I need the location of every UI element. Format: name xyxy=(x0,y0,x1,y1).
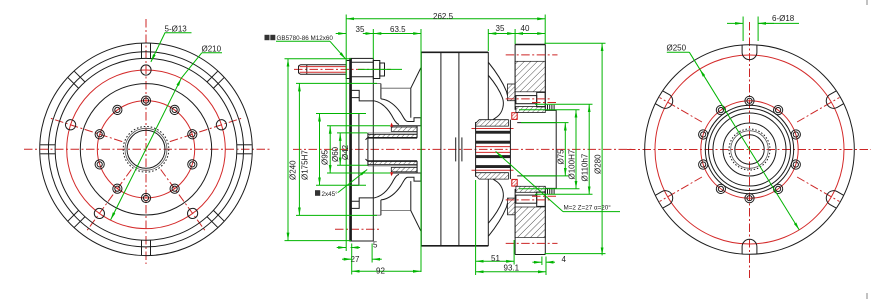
hub end step top xyxy=(417,118,421,126)
pilot boss xyxy=(545,110,556,188)
svg-text:35: 35 xyxy=(496,24,505,33)
rim top edge thick xyxy=(515,44,545,46)
left flange plate xyxy=(350,58,374,241)
collar dia95 top edge xyxy=(351,113,359,115)
bolt circle dia250 red xyxy=(655,55,844,244)
dim 40 xyxy=(515,33,545,35)
drum top edge xyxy=(421,51,488,53)
bolt hole axis red bottom xyxy=(506,199,550,201)
right hub spline shaft: top hatch band xyxy=(476,120,509,126)
hub mid line bottom xyxy=(368,165,417,167)
radial centerline 18deg xyxy=(170,118,243,142)
hub circle r44 xyxy=(705,105,793,193)
hub end cap bottom xyxy=(416,161,418,173)
screw head recess top xyxy=(537,92,546,106)
green line bolt axis xyxy=(358,68,402,70)
hub circle r41 xyxy=(709,109,791,191)
hub front chamfer bottom xyxy=(366,159,368,161)
dim 93.1 xyxy=(476,271,546,273)
rim circle 2 xyxy=(48,52,243,247)
drum left edge xyxy=(420,52,422,246)
svg-text:4: 4 xyxy=(562,255,567,264)
dia60 dim xyxy=(329,126,331,173)
svg-text:92: 92 xyxy=(376,267,385,276)
ext line 515.1 xyxy=(514,29,516,44)
svg-text:Ø60: Ø60 xyxy=(331,146,340,162)
svg-text:Ø250: Ø250 xyxy=(667,44,687,53)
radial centerline 162deg xyxy=(49,118,122,142)
plate inner face line xyxy=(350,58,352,241)
6 rim slots dia18 xyxy=(742,45,757,60)
right bell outer diagonal bottom xyxy=(489,203,508,236)
bell inner curve top xyxy=(381,99,421,122)
bell outer diagonal top xyxy=(411,67,421,88)
boss right face bottom xyxy=(380,200,382,215)
bore band top xyxy=(476,141,511,144)
bell neck vertical top xyxy=(410,88,412,118)
hub front chamfer top xyxy=(366,137,368,139)
gear teeth ticks bottom xyxy=(547,188,549,194)
bell neck vertical bottom xyxy=(410,181,412,211)
screw head recess bottom xyxy=(537,192,546,206)
inner circle r65.7 xyxy=(80,84,211,215)
bore top line xyxy=(368,137,417,139)
hub end step bottom xyxy=(417,173,421,181)
spline pitch line red top xyxy=(472,128,514,130)
bolt circle line red bottom xyxy=(506,242,558,244)
dim 35 right xyxy=(488,33,515,35)
hub mid line top xyxy=(368,132,417,134)
spline bore circle xyxy=(735,135,764,164)
d210 diameter leader line xyxy=(202,52,222,54)
svg-text:2x45°: 2x45° xyxy=(322,190,339,198)
drum inner line 2 xyxy=(458,52,460,246)
hub sleeve hatch top outer xyxy=(391,127,417,131)
bell outer diagonal bottom xyxy=(411,211,421,232)
10 small tapped holes xyxy=(745,96,754,105)
bolt callout leader xyxy=(276,40,330,42)
chamfer callout xyxy=(315,190,320,196)
8 rim notches xyxy=(142,44,151,59)
bell inner curve top 2 xyxy=(374,101,399,125)
svg-text:6-Ø18: 6-Ø18 xyxy=(772,14,795,23)
red surface mark bottom xyxy=(390,172,393,176)
drum right edge upper xyxy=(487,52,489,120)
right bell inner diagonal top xyxy=(489,76,504,120)
bolt circle small holes red xyxy=(97,101,194,198)
nut outer face xyxy=(380,63,385,76)
nut xyxy=(373,61,380,79)
boss right face top xyxy=(380,84,382,99)
left flange plate left face thick xyxy=(349,58,351,241)
bolt axis centerline top xyxy=(294,68,391,70)
right flange rim outline xyxy=(514,44,516,110)
d250 diameter leader line xyxy=(667,51,690,53)
tapped hole bore top xyxy=(516,96,537,104)
bottom hatch band xyxy=(476,173,509,179)
dia175H7 dim xyxy=(298,83,300,215)
radial centerline 30deg xyxy=(797,98,839,123)
svg-text:Ø100H7: Ø100H7 xyxy=(568,149,577,179)
dia42 dim xyxy=(339,133,341,165)
boss dia175 bottom edge xyxy=(373,214,381,216)
dia280 dim xyxy=(601,43,603,255)
bore band bottom xyxy=(476,155,511,158)
spline teeth ring xyxy=(729,129,770,170)
hub outer bottom line xyxy=(391,172,417,174)
svg-text:35: 35 xyxy=(356,25,365,34)
drum inner line 1 xyxy=(440,52,442,246)
svg-text:5-Ø13: 5-Ø13 xyxy=(165,25,188,34)
hub left end cap xyxy=(475,122,477,177)
rim circle 3 xyxy=(55,58,237,240)
bore lines dia75 xyxy=(517,122,556,124)
svg-text:5: 5 xyxy=(373,241,378,250)
svg-text:63.5: 63.5 xyxy=(390,25,406,34)
leader 5-d13 xyxy=(151,33,192,62)
seal ring red bottom xyxy=(512,179,517,186)
spline teeth ring xyxy=(123,127,169,173)
bell inner curve bottom 2 xyxy=(374,174,399,198)
svg-text:51: 51 xyxy=(491,254,500,263)
bolt circle line bottom left flange xyxy=(335,228,379,230)
centerline horizontal xyxy=(627,149,871,151)
dim 63.5 xyxy=(373,33,421,35)
dim 92 xyxy=(352,270,421,272)
ext line 347.5 xyxy=(345,15,347,252)
center bushing lines xyxy=(455,137,457,161)
dim 4 xyxy=(532,261,542,263)
hub outer top line xyxy=(391,125,417,127)
red surface mark top xyxy=(390,123,393,127)
gear pitch red bottom xyxy=(532,195,558,197)
bell inner curve bottom xyxy=(381,177,421,200)
spline pitch line red bottom xyxy=(472,169,514,171)
dim 27 xyxy=(342,258,352,260)
svg-text:40: 40 xyxy=(521,24,530,33)
svg-text:Ø280: Ø280 xyxy=(594,154,603,174)
gear teeth ticks top xyxy=(547,105,549,111)
boss dia175 top edge xyxy=(373,83,381,85)
radial centerline 306deg xyxy=(161,170,206,232)
right bell outer diagonal top xyxy=(489,63,508,96)
hub circle r26.5 xyxy=(723,123,776,176)
svg-text:Ø42: Ø42 xyxy=(341,144,350,160)
dim 5 bottom xyxy=(337,247,347,249)
bolt hole through plate xyxy=(351,61,373,63)
10 small tapped holes xyxy=(141,96,150,105)
bolt M12x60 shank xyxy=(299,65,347,75)
small hatched step top xyxy=(508,84,516,101)
border tick bottom right xyxy=(866,293,868,299)
hub end cap top xyxy=(416,126,418,138)
radial centerline 330deg xyxy=(797,177,839,202)
ext lines bottom left xyxy=(351,244,353,275)
hub circle r36.5 xyxy=(713,113,786,186)
border tick top right xyxy=(866,0,868,5)
rim hatch top xyxy=(515,61,545,92)
ext line 488.3 xyxy=(487,29,489,51)
bore bottom line xyxy=(368,160,417,162)
ext line 421.2 (long) xyxy=(420,29,422,272)
bolt head xyxy=(346,61,350,79)
gear pitch red top xyxy=(532,102,558,104)
svg-text:93.1: 93.1 xyxy=(504,264,520,273)
hub sleeve hatch bottom inner xyxy=(368,161,417,164)
centerline horizontal xyxy=(24,148,270,150)
5 holes dia13 xyxy=(141,65,151,75)
hub flange hatch strip bottom xyxy=(516,186,545,192)
bolt circle dia210 red xyxy=(67,70,226,229)
bolt hole axis red top xyxy=(506,98,550,100)
outer circle xyxy=(645,45,855,255)
svg-text:Ø210: Ø210 xyxy=(202,44,222,53)
seal ring red top xyxy=(512,113,517,120)
dim 51 xyxy=(476,260,514,262)
centerline vertical xyxy=(145,19,147,264)
dim 35 left xyxy=(336,33,347,35)
top dim 262.5 xyxy=(346,18,545,20)
svg-text:Ø95: Ø95 xyxy=(321,149,330,165)
svg-text:Ø175H7: Ø175H7 xyxy=(301,150,310,180)
hub flange hatch strip top xyxy=(516,107,545,113)
svg-text:262.5: 262.5 xyxy=(433,12,454,21)
main axis centerline xyxy=(293,148,632,150)
dia240 dim xyxy=(287,59,289,241)
dia100H7 dim xyxy=(575,110,577,189)
plate step top 2 xyxy=(359,98,374,101)
ext line 373.3 xyxy=(372,29,374,59)
bolt circle line red top xyxy=(506,54,558,56)
hub right end cap xyxy=(509,120,511,179)
outer rim circle xyxy=(40,43,253,256)
centerline vertical xyxy=(749,22,751,278)
bolt thread minor lines red xyxy=(300,66,347,68)
cylinder top edge to bell xyxy=(381,87,411,89)
bolt circle small holes red xyxy=(701,101,798,198)
bore red lines xyxy=(476,146,511,148)
hub sleeve hatch bottom outer xyxy=(391,167,417,171)
svg-text:Ø240: Ø240 xyxy=(289,160,298,180)
svg-text:M=2 Z=27 α=20°: M=2 Z=27 α=20° xyxy=(564,204,612,212)
drum bottom edge xyxy=(421,245,488,247)
right bell inner diagonal bottom xyxy=(489,179,504,223)
collar dia95 right face xyxy=(358,114,360,186)
bolt callout text xyxy=(265,35,270,40)
svg-text:Ø75: Ø75 xyxy=(556,149,565,165)
spline root band top xyxy=(476,131,511,134)
plate step bottom 2 xyxy=(359,198,374,201)
drum right edge lower xyxy=(487,179,489,246)
rim hatch bottom xyxy=(515,207,545,238)
plate step top xyxy=(351,90,359,97)
collar dia95 bottom edge xyxy=(351,184,359,186)
plate step bottom xyxy=(351,201,359,208)
ext lines bottom right xyxy=(475,180,477,275)
ext line 545.2 xyxy=(544,15,546,45)
radial centerline 210deg xyxy=(660,177,702,202)
svg-text:Ø110h7: Ø110h7 xyxy=(581,153,590,181)
small hatched step bottom xyxy=(508,198,516,215)
spline inner bore circle xyxy=(127,130,165,168)
hub sleeve hatch top inner xyxy=(368,134,417,137)
cylinder bottom edge to bell xyxy=(381,210,411,212)
dia95 dim xyxy=(319,114,321,186)
hub front face xyxy=(367,133,369,166)
dia75 dim xyxy=(564,123,566,176)
spline root band bottom xyxy=(476,165,511,168)
radial centerline 234deg xyxy=(86,170,131,232)
radial centerline 150deg xyxy=(660,98,702,123)
tapped hole bore bottom xyxy=(516,195,537,203)
dia110h7 dim xyxy=(588,104,590,194)
